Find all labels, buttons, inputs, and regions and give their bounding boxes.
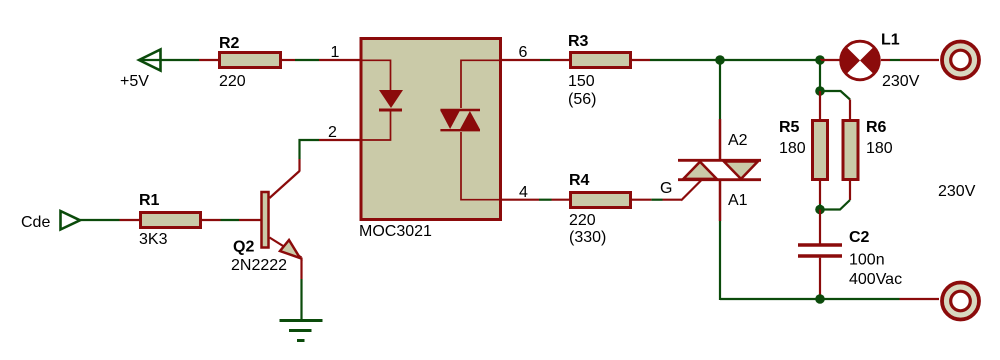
svg-text:180: 180 bbox=[866, 140, 893, 157]
svg-text:R2: R2 bbox=[219, 35, 240, 52]
wire to R5 top bbox=[819, 91, 821, 120]
capacitor C2 bbox=[798, 210, 902, 300]
ground bbox=[280, 321, 323, 341]
wire R1 to Q2 base bbox=[201, 219, 261, 221]
svg-text:150: 150 bbox=[568, 73, 595, 90]
svg-text:(56): (56) bbox=[568, 91, 596, 108]
wire junction to lamp L1 bbox=[820, 59, 841, 61]
svg-text:180: 180 bbox=[779, 140, 806, 157]
svg-text:1: 1 bbox=[331, 44, 340, 61]
resistor R2 bbox=[219, 35, 281, 90]
svg-text:230V: 230V bbox=[882, 73, 920, 90]
internal triac wire bottom bbox=[461, 132, 500, 200]
power terminal +5V bbox=[120, 50, 161, 91]
resistor R6 bbox=[843, 119, 893, 180]
wire Q2 collector to U1 pin 2 bbox=[299, 139, 362, 172]
resistor R1 bbox=[139, 192, 201, 248]
wire to R6 top bbox=[820, 91, 850, 120]
terminal neutral (bottom right) bbox=[942, 283, 979, 320]
wire +5V to R2 bbox=[140, 59, 219, 61]
svg-text:4: 4 bbox=[519, 184, 528, 201]
input terminal Cde bbox=[21, 211, 80, 231]
wire R6 bottom bbox=[820, 181, 850, 210]
wire R3 to triac A2 node bbox=[631, 59, 720, 61]
svg-text:Cde: Cde bbox=[21, 214, 50, 231]
svg-text:R5: R5 bbox=[779, 119, 800, 136]
svg-text:Q2: Q2 bbox=[233, 239, 254, 256]
junction snubber R5/R6 top bbox=[815, 86, 825, 96]
terminal live (top right) bbox=[942, 42, 979, 79]
wire triac A2 lead bbox=[719, 60, 721, 160]
svg-text:G: G bbox=[660, 180, 672, 197]
internal LED diode bbox=[379, 90, 403, 108]
svg-text:230V: 230V bbox=[938, 183, 976, 200]
svg-text:2N2222: 2N2222 bbox=[231, 257, 287, 274]
svg-text:R1: R1 bbox=[139, 192, 160, 209]
internal LED wire bottom bbox=[362, 111, 391, 140]
svg-text:220: 220 bbox=[569, 212, 596, 229]
svg-text:2: 2 bbox=[328, 124, 337, 141]
svg-text:220: 220 bbox=[219, 73, 246, 90]
svg-text:100n: 100n bbox=[849, 252, 885, 269]
wire bottom neutral run bbox=[720, 298, 939, 300]
svg-text:R6: R6 bbox=[866, 119, 887, 136]
wire L1 to live terminal bbox=[881, 59, 939, 61]
resistor R4 bbox=[569, 172, 631, 246]
transistor Q2 bbox=[231, 171, 302, 274]
svg-text:6: 6 bbox=[519, 44, 528, 61]
lamp L1 bbox=[841, 32, 920, 91]
wire R2 to U1 pin 1 bbox=[282, 59, 361, 61]
optocoupler U1 MOC3021 bbox=[359, 39, 501, 241]
wire R5 bottom bbox=[819, 181, 821, 210]
svg-text:L1: L1 bbox=[881, 32, 900, 49]
svg-text:MOC3021: MOC3021 bbox=[359, 223, 432, 240]
svg-text:(330): (330) bbox=[569, 229, 606, 246]
resistor R3 bbox=[568, 33, 631, 108]
svg-text:R4: R4 bbox=[569, 172, 590, 189]
internal triac symbol bbox=[440, 109, 480, 111]
junction snubber bottom node bbox=[815, 205, 825, 215]
svg-text:A2: A2 bbox=[728, 132, 748, 149]
wire snubber node down bbox=[819, 60, 821, 95]
svg-text:R3: R3 bbox=[568, 33, 589, 50]
wire U1 pin 6 to R3 bbox=[501, 59, 570, 61]
svg-text:3K3: 3K3 bbox=[139, 231, 168, 248]
wire R4 to triac gate bbox=[631, 181, 701, 201]
wire triac A1 lead bbox=[719, 180, 722, 300]
junction snubber top node bbox=[815, 55, 825, 65]
wire Q2 emitter to ground bbox=[300, 258, 302, 321]
internal LED wire top bbox=[362, 60, 391, 90]
svg-text:A1: A1 bbox=[728, 192, 748, 209]
resistor R5 bbox=[779, 119, 828, 180]
svg-text:+5V: +5V bbox=[120, 73, 149, 90]
junction bottom node bbox=[815, 294, 825, 304]
svg-text:C2: C2 bbox=[849, 229, 870, 246]
internal triac wire top bbox=[461, 60, 500, 108]
wire Cde to R1 bbox=[80, 219, 140, 221]
junction triac A2 node bbox=[715, 55, 725, 65]
svg-text:400Vac: 400Vac bbox=[849, 271, 902, 288]
wire A2 node to snubber node bbox=[720, 59, 820, 61]
wire U1 pin 4 to R4 bbox=[501, 199, 570, 201]
triac bbox=[678, 132, 761, 209]
